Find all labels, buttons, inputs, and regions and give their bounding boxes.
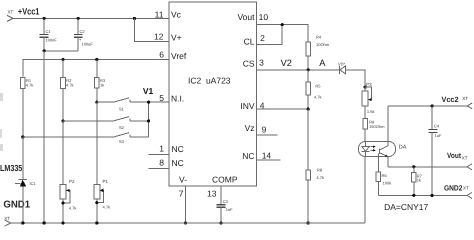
junction S1 left (95, 101, 98, 104)
junction cap join (43, 49, 46, 52)
diode IC1 (LM335 sensor) (15, 179, 37, 223)
resistor R1 4.7k (21, 78, 34, 89)
svg-text:XT: XT (463, 185, 469, 190)
svg-text:NC: NC (172, 158, 184, 168)
junction C1 top (43, 17, 46, 20)
junction IC1 ground (21, 221, 24, 224)
wire R4 to CS line (307, 56, 309, 70)
wire Vref to R2 (62, 60, 64, 78)
junction CL to Vout wire (281, 23, 284, 26)
pin 14 (NC) stub (242, 151, 280, 162)
svg-text:C1: C1 (46, 29, 52, 34)
svg-text:5: 5 (159, 93, 164, 103)
svg-text:10: 10 (259, 12, 269, 22)
junction V+ branch (133, 17, 136, 20)
potentiometer P2 4.7k (60, 179, 76, 223)
svg-text:14: 14 (262, 151, 272, 161)
svg-text:Vout: Vout (237, 12, 255, 22)
svg-text:N.I.: N.I. (171, 94, 184, 104)
svg-text:150Ohm: 150Ohm (369, 124, 385, 129)
resistor R8 4.7k (306, 109, 324, 223)
wire R3 column to P1 (96, 102, 98, 184)
svg-text:9: 9 (262, 125, 267, 135)
wire Vref rail (23, 60, 169, 77)
wire capacitor bottoms join (44, 50, 78, 52)
switch S3 (23, 133, 149, 144)
junction pin7 ground (184, 221, 187, 224)
svg-text:C3: C3 (223, 199, 229, 204)
capacitor C1 100nF (40, 18, 58, 50)
svg-text:A: A (319, 58, 326, 68)
svg-text:4.7k: 4.7k (26, 83, 34, 88)
pin 7 (V-) wire to ground (179, 175, 187, 223)
junction R8 ground (307, 221, 310, 224)
junction V1/S2 (147, 119, 150, 122)
junction C1-line ground (43, 221, 46, 224)
svg-text:NC: NC (172, 144, 184, 154)
svg-text:Vz: Vz (245, 123, 255, 133)
junction S3 left (21, 135, 24, 138)
svg-text:8: 8 (159, 157, 164, 167)
wire V+ branch to pin 12 (134, 18, 169, 41)
svg-text:S1: S1 (119, 106, 125, 111)
svg-text:S2: S2 (119, 125, 125, 130)
svg-text:XT: XT (8, 10, 14, 15)
svg-text:4.7k: 4.7k (316, 175, 324, 180)
capacitor C3 1nF (217, 199, 234, 223)
pin 13 (COMP) wire (207, 175, 238, 205)
svg-text:4.7k: 4.7k (69, 206, 77, 211)
svg-text:11: 11 (155, 10, 164, 20)
junction C2 top (77, 17, 80, 20)
wire R2 column to P2 (62, 121, 64, 185)
svg-text:2: 2 (260, 33, 265, 43)
svg-text:10Ohm: 10Ohm (316, 42, 330, 47)
wire caps to ground rail (43, 51, 45, 223)
svg-text:V1: V1 (143, 86, 154, 96)
junction R4/R5 on CS wire (307, 68, 310, 71)
junction R3 top (95, 58, 98, 61)
pin 12 (V+) (154, 32, 182, 43)
svg-text:1: 1 (159, 144, 164, 154)
capacitor C4 1uF (429, 106, 442, 195)
wire collector to Vcc2 (387, 106, 389, 141)
svg-text:IC1: IC1 (30, 181, 37, 186)
wire emitter to Vout line (387, 157, 389, 167)
svg-text:1uF: 1uF (435, 133, 442, 138)
svg-text:C2: C2 (80, 29, 86, 34)
capacitor C2 100uF polarized (74, 18, 94, 50)
svg-text:P2: P2 (69, 179, 75, 184)
resistor R4 10Ohm (306, 35, 330, 56)
svg-text:V+: V+ (171, 33, 182, 43)
svg-text:CS: CS (243, 59, 255, 69)
pin 5 (N.I.) (159, 93, 184, 104)
svg-text:Vout: Vout (447, 151, 461, 160)
svg-text:4.7k: 4.7k (314, 95, 322, 100)
svg-text:C4: C4 (434, 124, 440, 129)
svg-text:+Vcc1: +Vcc1 (18, 6, 40, 16)
connector XT4 Vout (447, 151, 472, 170)
junction C3 ground (219, 221, 222, 224)
wire P3 to R9 (364, 106, 366, 119)
svg-text:1k: 1k (417, 177, 421, 182)
wire S3 junction to IC1 (22, 137, 24, 179)
resistor R5 4.7k (306, 70, 322, 109)
wire R1 to S3 junction (22, 89, 24, 138)
pin 9 (Vz) stub (245, 123, 278, 135)
svg-text:XT: XT (462, 96, 468, 101)
pin 11 (Vc) (155, 10, 182, 20)
wire +Vcc1 rail to pin 11 (13, 17, 169, 19)
pin 6 (Vref) (159, 50, 187, 62)
svg-text:V2: V2 (281, 58, 292, 68)
pin 1 (NC) stub (148, 144, 183, 155)
pin 3 (CS) wire with nodes V2 and A (243, 58, 335, 70)
svg-text:S3: S3 (119, 139, 125, 144)
junction R7 ground2 (412, 194, 415, 197)
svg-text:VD*: VD* (338, 61, 346, 66)
pin 4 (INV) wire (240, 101, 308, 112)
svg-text:12: 12 (154, 32, 164, 42)
svg-text:R6: R6 (382, 173, 388, 178)
svg-text:DA=CNY17: DA=CNY17 (384, 202, 428, 212)
junction V1/S1 (147, 101, 150, 104)
svg-text:6: 6 (159, 50, 164, 60)
junction C4 top (431, 104, 434, 107)
wire LED cathode to ground rail (364, 157, 366, 223)
wire node A to P3 (353, 70, 366, 87)
junction P1 ground (95, 221, 98, 224)
junction C4 ground2 (431, 194, 434, 197)
svg-text:Vc: Vc (171, 10, 182, 20)
wire R3 to S1 junction (96, 88, 98, 102)
svg-text:1k: 1k (100, 83, 104, 88)
wire GND2 line (378, 194, 467, 196)
svg-text:7: 7 (179, 189, 184, 199)
svg-text:4.7k: 4.7k (66, 83, 74, 88)
wire R9 to optocoupler LED (364, 129, 366, 141)
connector XT1 +Vcc1 (7, 6, 39, 21)
svg-text:CL: CL (244, 37, 255, 47)
svg-text:1.5k: 1.5k (367, 109, 375, 114)
svg-text:IC2 uA723: IC2 uA723 (188, 76, 231, 86)
svg-text:P3: P3 (366, 82, 372, 87)
wire Vout line (388, 166, 467, 168)
svg-text:DA: DA (399, 145, 407, 151)
svg-text:1nF: 1nF (226, 207, 233, 212)
svg-text:NC: NC (242, 151, 254, 161)
connector XT5 GND2 (444, 184, 472, 199)
junction INV/R8 (307, 108, 310, 111)
svg-text:Vref: Vref (171, 51, 187, 61)
svg-text:100nF: 100nF (46, 38, 58, 43)
svg-text:GND2: GND2 (444, 184, 462, 193)
svg-text:100uF: 100uF (82, 42, 94, 47)
resistor R9 150Ohm (363, 119, 385, 130)
svg-text:XT: XT (4, 216, 10, 221)
pin 8 (NC) stub (148, 157, 183, 168)
junction P2 ground (61, 221, 64, 224)
potentiometer P1 4.7k (94, 179, 110, 223)
svg-text:100k: 100k (383, 180, 392, 185)
optocoupler DA CNY17 (358, 141, 406, 156)
svg-text:13: 13 (207, 189, 217, 199)
svg-text:P1: P1 (103, 179, 109, 184)
svg-text:Vcc2: Vcc2 (442, 95, 459, 104)
svg-text:INV: INV (240, 101, 255, 111)
potentiometer P3 1.5k (362, 82, 374, 114)
svg-text:R4: R4 (316, 35, 322, 40)
connector XT2 GND1 (3, 199, 30, 226)
wire base to R6 (377, 157, 379, 172)
pin 10 (Vout) wire to R4 (237, 12, 308, 42)
svg-text:GND1: GND1 (3, 199, 30, 210)
svg-text:LM335: LM335 (0, 163, 22, 173)
resistor R2 4.7k (61, 78, 74, 89)
svg-text:V-: V- (179, 175, 187, 185)
svg-text:4: 4 (260, 101, 265, 111)
junction R7 top (412, 165, 415, 168)
ground rail GND1 (11, 222, 365, 224)
op-amp regulator IC2 uA723 body (169, 2, 257, 186)
svg-text:R8: R8 (317, 167, 323, 172)
node V1 column (148, 102, 150, 137)
diode VD* (335, 61, 353, 74)
pin 2 (CL) wire to Vout (244, 25, 283, 47)
wire Vcc2 rail (388, 105, 467, 107)
junction R2 top (61, 58, 64, 61)
switch S1 (97, 98, 169, 112)
switch S2 (63, 117, 149, 130)
connector XT3 Vcc2 (442, 95, 473, 109)
svg-text:XT: XT (462, 155, 468, 160)
svg-text:R5: R5 (315, 83, 321, 88)
resistor R6 100k (376, 172, 391, 195)
wire Vref to R3 (96, 60, 98, 78)
svg-text:COMP: COMP (212, 175, 238, 185)
svg-text:3: 3 (259, 58, 264, 68)
resistor R3 1k (95, 78, 106, 89)
wire R2 to S2 junction (62, 89, 64, 121)
resistor R7 1k (412, 167, 423, 196)
junction P3 wiper top (364, 86, 367, 89)
junction S2 left (61, 119, 64, 122)
svg-text:4.7k: 4.7k (103, 204, 111, 209)
